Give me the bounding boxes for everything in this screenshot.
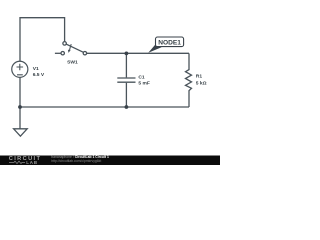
svg-text:5 kΩ: 5 kΩ	[196, 80, 207, 86]
svg-text:C1: C1	[138, 74, 145, 80]
svg-text:NODE1: NODE1	[158, 39, 181, 46]
svg-text:LAB: LAB	[26, 160, 38, 165]
svg-text:V1: V1	[33, 66, 39, 72]
svg-text:R1: R1	[196, 73, 203, 79]
svg-text:6.5 V: 6.5 V	[33, 72, 45, 78]
svg-text:SW1: SW1	[67, 59, 78, 65]
svg-text:5 mF: 5 mF	[138, 81, 149, 87]
svg-text:http://circuitlab.com/c/pmkrvy: http://circuitlab.com/c/pmkrvyg6kt	[51, 159, 101, 163]
